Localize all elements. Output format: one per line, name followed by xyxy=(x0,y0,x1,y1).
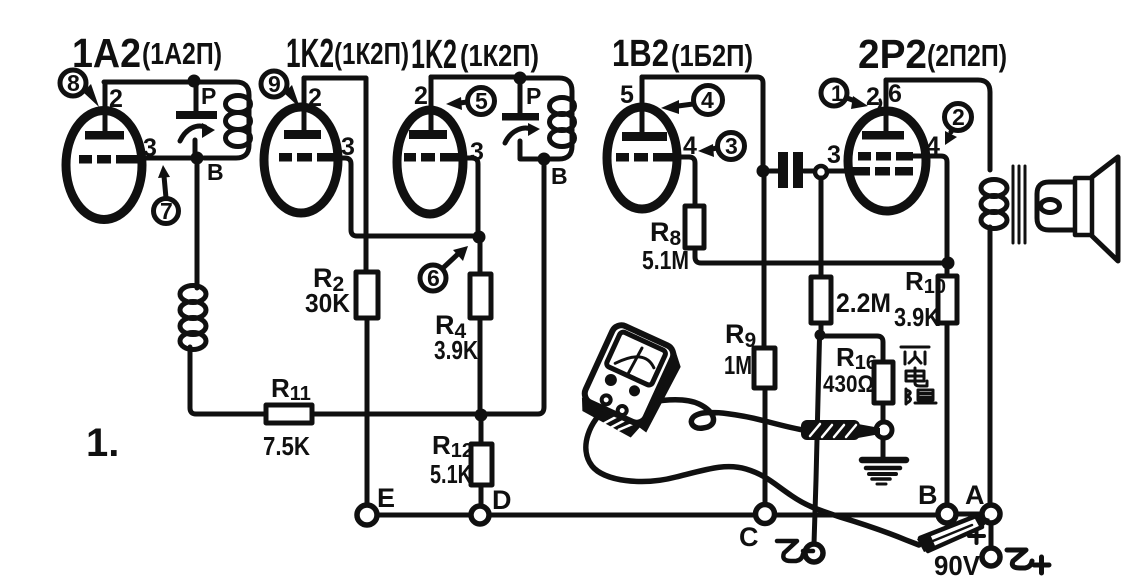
meter terminal 2 xyxy=(616,405,628,417)
meter case xyxy=(582,322,677,426)
terminal D xyxy=(471,506,489,524)
svg-text:P: P xyxy=(201,83,216,109)
svg-text:30K: 30K xyxy=(305,288,350,318)
svg-text:2: 2 xyxy=(952,104,965,130)
wire R8 bottom to screen bus xyxy=(695,248,942,263)
callout 7 xyxy=(154,165,179,224)
callout 3 xyxy=(698,133,745,160)
svg-text:2: 2 xyxy=(414,82,428,110)
V1 grid dashes xyxy=(79,155,142,164)
node G (1B2 plate node) xyxy=(757,165,770,178)
V1 pin 2 lead xyxy=(103,82,108,137)
tube V5 2P2 envelope xyxy=(848,111,926,211)
node P1 (tank1 top) xyxy=(188,75,201,88)
svg-text:1: 1 xyxy=(831,81,843,106)
speaker frame plate xyxy=(1075,178,1092,235)
V2 anode bar xyxy=(284,130,321,139)
wire V2 pin2 over to R2 xyxy=(304,78,366,272)
label plus polarity xyxy=(969,529,984,543)
V5 grid dashes row1 xyxy=(858,152,913,161)
svg-text:2.2M: 2.2M xyxy=(836,288,891,318)
coupling capacitor right lead xyxy=(804,169,814,174)
tube label 1K2 first xyxy=(286,30,409,76)
wire B1 down to antenna coil xyxy=(195,163,200,288)
resistor 2.2M xyxy=(811,277,831,323)
svg-text:1K2: 1K2 xyxy=(286,30,334,76)
wire V1 pin3 to node B1 xyxy=(138,156,194,161)
svg-text:7: 7 xyxy=(160,198,173,224)
variable capacitor C1 plate xyxy=(176,111,217,119)
resistor R8 xyxy=(685,206,704,248)
wire node K to R16 xyxy=(824,336,883,362)
svg-text:D: D xyxy=(492,485,512,515)
svg-text:1B2: 1B2 xyxy=(612,33,669,75)
svg-text:1M: 1M xyxy=(724,350,752,380)
label Z-minus glyph xyxy=(777,541,813,561)
wire V2 pin3 to junction J2 xyxy=(336,158,473,236)
callout 9 xyxy=(261,71,300,108)
multimeter lead 1 (to R16 ground clip) xyxy=(625,400,803,430)
V3 grid dashes xyxy=(404,153,464,162)
svg-text:B: B xyxy=(918,480,938,510)
V4 anode bar xyxy=(622,132,667,141)
svg-text:(1А2П): (1А2П) xyxy=(142,36,222,71)
terminal B xyxy=(938,505,956,523)
meter window xyxy=(605,331,666,386)
resistor R11 xyxy=(266,405,312,423)
resistor R4 xyxy=(478,243,483,274)
tube V2 1K2 envelope xyxy=(264,107,338,213)
svg-text:6: 6 xyxy=(888,80,902,108)
callout 1 xyxy=(821,80,868,109)
tube V1 1A2 envelope xyxy=(66,111,142,220)
terminal Z-minus xyxy=(805,544,823,562)
callout 5 xyxy=(446,88,495,115)
svg-text:7.5K: 7.5K xyxy=(263,431,310,461)
speaker voice coil xyxy=(1041,200,1060,213)
node J1 xyxy=(475,409,488,422)
svg-text:2: 2 xyxy=(109,85,123,113)
wire V1 pin2 to tank1 top xyxy=(104,80,194,85)
tank1 outline with coil side xyxy=(194,82,249,158)
meter bottom shade xyxy=(575,398,642,440)
tube label 1K2 second xyxy=(411,31,539,77)
node tank2 top xyxy=(514,72,527,85)
speaker cone xyxy=(1092,157,1118,261)
svg-text:(2П2П): (2П2П) xyxy=(927,38,1007,73)
V3 pin 2 lead xyxy=(429,77,434,134)
wire V3 pin2 to tank2 top xyxy=(431,75,514,80)
callout 8 xyxy=(60,70,99,107)
variable capacitor C2 rotor arc xyxy=(505,128,533,143)
wire V4 pin4 down to R8 xyxy=(677,157,695,206)
variable capacitor C2 top lead xyxy=(518,84,523,113)
test probe 2 xyxy=(917,514,990,552)
speaker magnet pot xyxy=(1037,182,1074,230)
callout 6 xyxy=(420,246,468,291)
svg-text:B: B xyxy=(207,159,224,185)
label Z-plus glyph xyxy=(1007,550,1049,573)
V2 grid dashes xyxy=(279,153,340,162)
wire V4 pin5 over and down to node G xyxy=(642,77,763,165)
svg-text:3.9K: 3.9K xyxy=(894,302,940,332)
ground symbol xyxy=(862,460,906,484)
svg-text:2P2: 2P2 xyxy=(858,31,927,77)
svg-text:6: 6 xyxy=(427,265,440,291)
test probe 1 xyxy=(803,422,880,438)
svg-text:3.9K: 3.9K xyxy=(434,335,478,365)
wire tank2 B down to node J1 xyxy=(487,161,544,414)
callout 2 xyxy=(945,104,972,146)
terminal Z-plus xyxy=(982,548,1000,566)
svg-text:5.1M: 5.1M xyxy=(642,245,689,275)
svg-text:A: A xyxy=(965,480,985,510)
svg-text:4: 4 xyxy=(701,87,714,113)
V5 grid dashes row2 xyxy=(850,167,913,176)
V4 grid dashes xyxy=(616,153,679,162)
output transformer primary loops xyxy=(981,180,1007,197)
variable capacitor C2 bottom lead xyxy=(518,141,523,159)
wire L0 to R11 xyxy=(190,347,266,414)
node B1 xyxy=(191,152,204,165)
node J2 xyxy=(473,231,486,244)
resistor R2 xyxy=(356,272,378,318)
V1 anode bar xyxy=(85,131,124,140)
node B2 xyxy=(538,153,551,166)
wire R12 to terminal D xyxy=(479,485,484,505)
variable capacitor C2 plate xyxy=(502,113,539,121)
V4 pin 5 lead xyxy=(640,77,645,136)
svg-text:9: 9 xyxy=(268,71,281,97)
node H (2P2 grid node, open) xyxy=(815,166,827,178)
resistor R10 xyxy=(945,268,950,276)
svg-text:90V: 90V xyxy=(934,550,980,581)
tube V4 1B2 envelope xyxy=(607,107,677,209)
glyph zu xyxy=(905,389,908,404)
node R10 top junction xyxy=(942,257,955,270)
wire V5 pin4 down to R10 xyxy=(913,156,947,257)
variable capacitor C1 rotor arc xyxy=(180,126,205,141)
meter scale arc xyxy=(615,348,656,379)
coupling capacitor left lead xyxy=(769,169,780,174)
label C-battery chinese (drawn glyphs) xyxy=(901,347,936,404)
wire R4 bottom to node J1 xyxy=(478,318,483,409)
wire A down to Z-plus xyxy=(989,523,994,548)
meter knob 1 xyxy=(603,372,619,388)
probe node circle xyxy=(876,422,892,438)
meter knob 2 xyxy=(627,384,642,399)
variable capacitor C1 bottom lead xyxy=(193,140,198,158)
wire node K down to terminal Z-minus xyxy=(814,338,820,544)
wire transformer to terminal A xyxy=(988,227,993,505)
coil L2 tank2 loops xyxy=(550,98,575,115)
multimeter body xyxy=(575,322,686,444)
V5 pin 2,6 lead xyxy=(884,80,889,135)
svg-text:C: C xyxy=(739,522,759,552)
wire node H down to 2.2M xyxy=(819,178,824,277)
terminal E xyxy=(357,505,377,525)
glyph bing xyxy=(901,346,929,349)
glyph dian xyxy=(906,371,924,381)
V3 anode bar xyxy=(409,130,447,139)
wire V3 pin3 down to junction J2 xyxy=(461,158,478,231)
svg-text:8: 8 xyxy=(67,70,80,96)
meter terminal 1 xyxy=(600,394,612,406)
resistor R12 xyxy=(479,421,484,444)
svg-text:5: 5 xyxy=(475,88,488,114)
svg-text:1A2: 1A2 xyxy=(72,30,141,76)
node K xyxy=(815,330,826,341)
svg-text:1K2: 1K2 xyxy=(411,31,457,77)
variable capacitor C1 top lead xyxy=(194,82,199,111)
tube label 1A2 xyxy=(72,30,222,76)
output transformer core xyxy=(1013,166,1025,243)
svg-text:3: 3 xyxy=(827,141,841,169)
wire R16 bottom to probe node xyxy=(881,403,886,423)
resistor R9 xyxy=(754,348,775,388)
meter needle xyxy=(628,347,642,375)
bottom bus E to B xyxy=(367,513,938,518)
tube label 2P2 xyxy=(858,31,1007,77)
svg-text:1.: 1. xyxy=(86,421,119,465)
svg-text:2: 2 xyxy=(308,84,322,112)
coil L1 tank1 loops xyxy=(226,96,251,113)
tube label 1B2 xyxy=(612,33,753,75)
ground lead xyxy=(881,439,886,457)
wire R2 bottom to terminal E xyxy=(365,318,370,505)
svg-text:(1К2П): (1К2П) xyxy=(460,38,539,73)
wire B to A xyxy=(956,512,982,517)
svg-text:2: 2 xyxy=(866,83,880,111)
svg-text:3: 3 xyxy=(725,133,738,159)
callout 4 xyxy=(661,86,723,115)
svg-text:5.1K: 5.1K xyxy=(430,459,472,489)
tube V3 1K2 envelope xyxy=(397,110,463,214)
svg-text:(1К2П): (1К2П) xyxy=(334,36,409,71)
tank2 outline with coil side xyxy=(520,78,572,159)
coupling capacitor plates xyxy=(778,152,788,188)
wire 2.2M bottom to node K xyxy=(819,323,824,331)
svg-text:430Ω: 430Ω xyxy=(823,371,874,398)
svg-text:E: E xyxy=(377,483,395,513)
wire node G down to R9 xyxy=(762,177,767,348)
svg-text:5: 5 xyxy=(620,81,634,109)
terminal A xyxy=(982,505,1000,523)
antenna coil L0 xyxy=(180,286,206,303)
wire R9 to terminal C xyxy=(763,388,768,504)
svg-text:P: P xyxy=(526,83,541,109)
resistor R16 xyxy=(874,362,893,403)
svg-text:B: B xyxy=(551,163,568,189)
wire R10 to terminal B xyxy=(945,323,950,505)
wire V5 pins 2,6 to output transformer xyxy=(886,80,990,170)
wire R11 to node J1 xyxy=(312,412,475,417)
meter side shade xyxy=(633,348,685,434)
multimeter lead 2 (to 90V probe) xyxy=(586,407,919,545)
V2 pin 2 lead xyxy=(302,78,307,134)
wire node H to V5 pin3 xyxy=(827,169,852,174)
terminal C xyxy=(756,505,775,524)
svg-text:(1Б2П): (1Б2П) xyxy=(671,38,753,73)
V5 anode bar xyxy=(862,131,904,140)
